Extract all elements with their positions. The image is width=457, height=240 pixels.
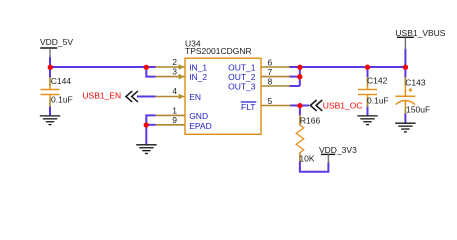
svg-text:USB1_VBUS: USB1_VBUS [395, 28, 445, 38]
svg-text:R166: R166 [300, 116, 321, 126]
svg-text:IN_1: IN_1 [189, 63, 207, 73]
svg-text:9: 9 [172, 115, 177, 125]
svg-text:6: 6 [268, 57, 273, 67]
svg-text:2: 2 [172, 57, 177, 67]
svg-text:10K: 10K [299, 153, 314, 163]
svg-text:USB1_EN: USB1_EN [82, 91, 121, 101]
svg-text:EN: EN [189, 92, 201, 102]
svg-text:8: 8 [268, 76, 273, 86]
svg-text:USB1_OC: USB1_OC [323, 100, 363, 110]
svg-text:C142: C142 [367, 75, 388, 85]
svg-text:VDD_5V: VDD_5V [40, 37, 73, 47]
svg-text:0.1uF: 0.1uF [367, 96, 389, 106]
svg-text:FLT: FLT [241, 102, 255, 112]
svg-text:C144: C144 [51, 76, 72, 86]
svg-text:C143: C143 [405, 77, 426, 87]
svg-text:4: 4 [172, 86, 177, 96]
svg-text:VDD_3V3: VDD_3V3 [319, 145, 357, 155]
svg-text:5: 5 [268, 96, 273, 106]
svg-text:3: 3 [172, 67, 177, 77]
svg-text:OUT_1: OUT_1 [228, 63, 256, 73]
svg-text:150uF: 150uF [406, 105, 430, 115]
svg-text:0.1uF: 0.1uF [51, 94, 73, 104]
svg-text:OUT_3: OUT_3 [228, 82, 256, 92]
svg-text:TPS2001CDGNR: TPS2001CDGNR [185, 46, 252, 56]
svg-text:EPAD: EPAD [189, 121, 212, 131]
svg-text:GND: GND [189, 111, 208, 121]
svg-text:IN_2: IN_2 [189, 72, 207, 82]
